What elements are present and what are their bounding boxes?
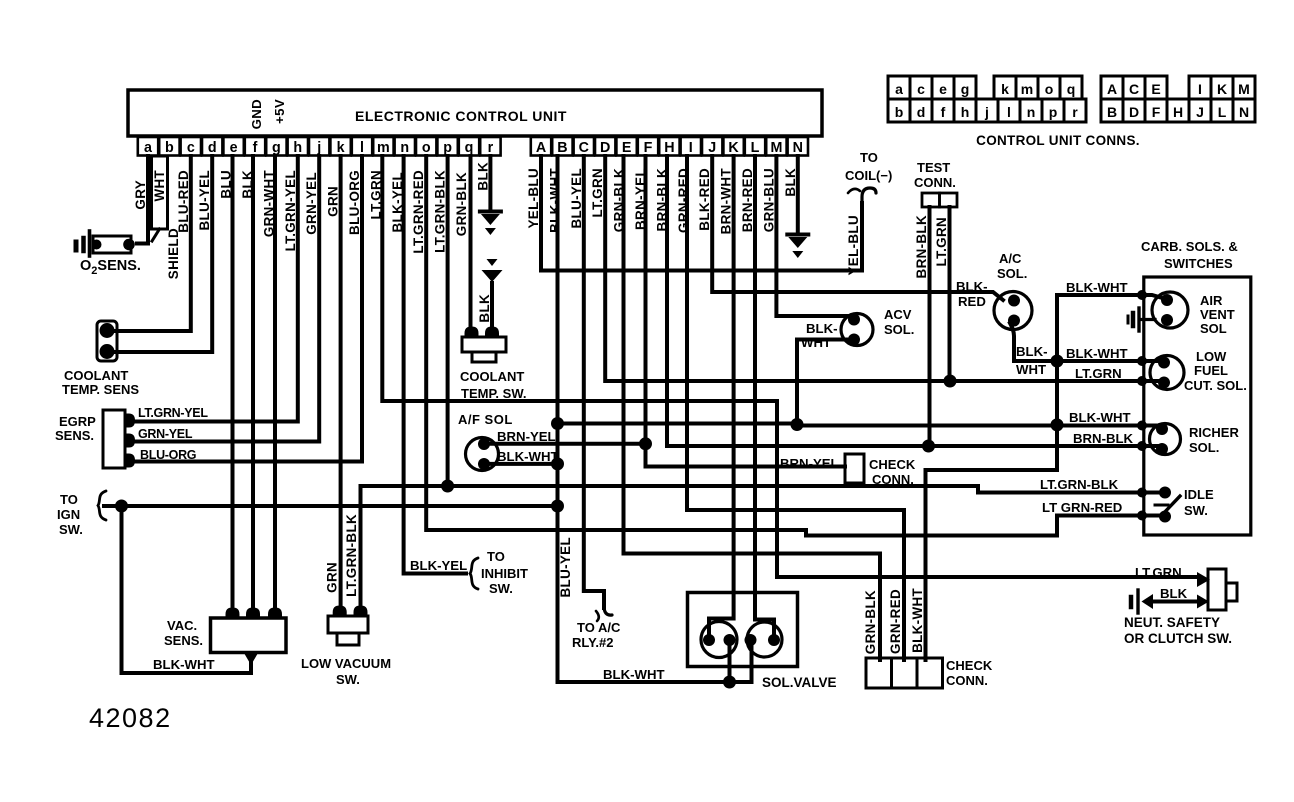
svg-text:BLK-: BLK-: [806, 321, 838, 336]
svg-text:LT.GRN-BLK: LT.GRN-BLK: [1040, 477, 1119, 492]
svg-text:J: J: [1196, 104, 1204, 120]
wire pin a GRY down to O2 sensor: [137, 156, 148, 244]
svg-text:WHT: WHT: [1016, 362, 1046, 377]
svg-text:SOL.: SOL.: [884, 322, 914, 337]
neut safety connector arrow: [1197, 572, 1210, 587]
svg-text:SW.: SW.: [336, 672, 360, 687]
svg-text:IDLE: IDLE: [1184, 487, 1214, 502]
svg-text:LT.GRN: LT.GRN: [1075, 366, 1122, 381]
low vacuum sw LT.GRN-BLK wire from idle line: [359, 486, 363, 614]
svg-text:CHECK: CHECK: [946, 658, 993, 673]
svg-text:BLU-ORG: BLU-ORG: [140, 448, 196, 462]
svg-text:M: M: [1238, 81, 1250, 97]
svg-text:AIR: AIR: [1200, 293, 1223, 308]
sol valve left coil: [701, 622, 737, 658]
svg-text:GRN-YEL: GRN-YEL: [304, 172, 319, 235]
neut safety ground: [1136, 590, 1139, 613]
EGRP sensor body: [103, 410, 125, 468]
svg-text:L: L: [1218, 104, 1227, 120]
svg-text:BLK-WHT: BLK-WHT: [497, 449, 559, 464]
svg-text:SHIELD: SHIELD: [166, 228, 181, 279]
svg-text:COOLANT: COOLANT: [460, 369, 524, 384]
svg-text:+5V: +5V: [272, 99, 287, 124]
wire pin I GRN-RED to check conn 2: [687, 156, 904, 660]
svg-text:GRN: GRN: [326, 186, 341, 217]
svg-text:BLK: BLK: [475, 162, 490, 191]
svg-text:BRN-BLK: BRN-BLK: [914, 215, 929, 278]
svg-text:FUEL: FUEL: [1194, 363, 1228, 378]
svg-text:TO: TO: [487, 549, 505, 564]
wire pin f BLK to vac sens: [251, 156, 255, 616]
solenoid LOW FUEL CUT: [1150, 356, 1184, 390]
svg-text:F: F: [1152, 104, 1161, 120]
O2 sensor body: [93, 236, 131, 253]
svg-text:g: g: [961, 81, 970, 97]
check conn 1 box: [845, 454, 864, 483]
coolant temp switch body: [465, 327, 479, 339]
svg-text:RICHER: RICHER: [1189, 425, 1239, 440]
svg-text:WHT: WHT: [152, 170, 167, 202]
A/F BRN-YEL wire to pin F: [483, 442, 646, 446]
test conn LT.GRN wire: [948, 207, 952, 381]
svg-text:BRN-RED: BRN-RED: [740, 168, 755, 232]
svg-text:BRN-YEL: BRN-YEL: [780, 456, 839, 471]
svg-text:EGRP: EGRP: [59, 414, 96, 429]
wire pin B BLK-WHT down to sol valve: [558, 156, 752, 682]
shield conductor (pin b): [152, 156, 168, 229]
vac sensor body: [226, 608, 240, 620]
solenoid ACV: [841, 314, 873, 346]
ECU upper-case pin boxes A-N: [531, 137, 551, 156]
svg-text:BRN-WHT: BRN-WHT: [719, 168, 734, 235]
wire pin e BLU to vac sens: [231, 156, 235, 616]
svg-text:SOL.VALVE: SOL.VALVE: [762, 675, 837, 690]
wire EGRP BLU-ORG to pin l: [127, 156, 362, 462]
svg-text:BLU-YEL: BLU-YEL: [558, 537, 573, 597]
control unit connector legend block 2: [1101, 76, 1123, 99]
svg-text:BLK-WHT: BLK-WHT: [547, 168, 562, 233]
solenoid A/C: [994, 292, 1032, 330]
svg-text:D: D: [600, 140, 610, 156]
svg-text:I: I: [1198, 81, 1202, 97]
svg-text:SENS.: SENS.: [164, 633, 203, 648]
svg-text:BLK-YEL: BLK-YEL: [410, 558, 467, 573]
svg-text:K: K: [728, 140, 739, 156]
wire pin q down to coolant temp switch: [469, 156, 473, 334]
svg-text:TEST: TEST: [917, 160, 950, 175]
svg-text:BLK-WHT: BLK-WHT: [1066, 346, 1128, 361]
svg-text:TO A/C: TO A/C: [577, 620, 621, 635]
svg-text:COOLANT: COOLANT: [64, 368, 128, 383]
svg-text:CONTROL UNIT CONNS.: CONTROL UNIT CONNS.: [976, 133, 1140, 148]
wire pin o LT.GRN-RED to idle sw: [426, 156, 1161, 536]
svg-text:LOW: LOW: [1196, 349, 1227, 364]
wire pin A YEL-BLU to coil: [541, 156, 862, 271]
svg-text:f: f: [941, 104, 946, 120]
svg-text:BLK-: BLK-: [1016, 344, 1048, 359]
svg-text:A/F SOL: A/F SOL: [458, 412, 513, 427]
svg-text:d: d: [208, 140, 217, 156]
svg-text:A: A: [536, 140, 546, 156]
wire pin C BLU-YEL to A/C relay: [584, 156, 604, 608]
svg-text:SW.: SW.: [59, 522, 83, 537]
svg-text:I: I: [689, 140, 693, 156]
svg-text:n: n: [400, 140, 409, 156]
svg-text:BLU-YEL: BLU-YEL: [569, 168, 584, 228]
svg-text:VENT: VENT: [1200, 307, 1235, 322]
svg-text:c: c: [187, 140, 195, 156]
svg-text:LT.GRN: LT.GRN: [934, 217, 949, 266]
svg-text:F: F: [644, 140, 653, 156]
wire pin F BRN-YEL to check conn 1: [646, 156, 846, 467]
wire pin d to coolant temp sens: [112, 156, 212, 352]
low vacuum sw body: [333, 606, 347, 618]
svg-text:SWITCHES: SWITCHES: [1164, 256, 1233, 271]
svg-text:k: k: [337, 140, 345, 156]
inhibit bracket: [470, 558, 478, 589]
coolant temp sensor body: [97, 321, 117, 361]
svg-text:SOL: SOL: [1200, 321, 1227, 336]
svg-text:N: N: [793, 140, 803, 156]
svg-text:h: h: [293, 140, 302, 156]
neut safety BLK wire: [1197, 595, 1209, 609]
wire pin M GRN-BLU to acv sol: [776, 156, 850, 316]
IDLE SW: [1159, 487, 1171, 499]
coil hook: [862, 188, 876, 204]
svg-text:LT.GRN: LT.GRN: [590, 168, 605, 217]
svg-text:WHT: WHT: [801, 335, 831, 350]
neut safety body: [1208, 569, 1226, 610]
coolant temp switch BLK wire to ground: [490, 283, 494, 334]
svg-text:m: m: [377, 140, 390, 156]
svg-text:a: a: [895, 81, 903, 97]
svg-text:GRN-BLK: GRN-BLK: [454, 172, 469, 236]
svg-text:E: E: [1151, 81, 1160, 97]
test conn boxes: [922, 193, 940, 207]
svg-text:YEL-BLU: YEL-BLU: [846, 215, 861, 275]
svg-text:BLK: BLK: [477, 294, 492, 323]
svg-text:CONN.: CONN.: [914, 175, 956, 190]
svg-text:LT GRN-RED: LT GRN-RED: [1042, 500, 1122, 515]
svg-text:c: c: [917, 81, 925, 97]
ECU lower-case pin boxes a-r: [138, 137, 158, 156]
svg-text:RED: RED: [958, 294, 986, 309]
wire pin N BLK to ground: [796, 156, 800, 232]
svg-text:LT.GRN-BLK: LT.GRN-BLK: [344, 514, 359, 597]
svg-text:f: f: [253, 140, 258, 156]
solenoid A/F: [466, 438, 499, 471]
wire pin c to coolant temp sens: [112, 156, 191, 331]
svg-text:BLK: BLK: [1160, 586, 1188, 601]
svg-text:BLK-WHT: BLK-WHT: [1066, 280, 1128, 295]
svg-text:VAC.: VAC.: [167, 618, 197, 633]
svg-text:g: g: [272, 140, 281, 156]
svg-text:J: J: [708, 140, 716, 156]
control unit connector legend block 1: [888, 76, 910, 99]
A/C sol BLK-WHT wire to low fuel: [1010, 323, 1160, 361]
svg-text:L: L: [751, 140, 760, 156]
svg-text:LT.GRN-RED: LT.GRN-RED: [411, 170, 426, 254]
IGN SW brace: [98, 491, 106, 520]
svg-text:p: p: [1049, 104, 1058, 120]
svg-text:E: E: [622, 140, 632, 156]
wire pin D LT.GRN to low fuel cut sol: [605, 156, 1161, 381]
wire pin k GRN to low vacuum sw: [339, 156, 343, 614]
svg-text:SOL.: SOL.: [1189, 440, 1219, 455]
test conn BRN-BLK wire: [928, 207, 932, 446]
svg-text:n: n: [1027, 104, 1036, 120]
wire pin n BLK-YEL to inhibit sw: [404, 156, 466, 574]
svg-text:e: e: [230, 140, 238, 156]
ACV BLK-WHT wire down to richer line: [797, 340, 854, 424]
svg-text:j: j: [316, 140, 321, 156]
svg-text:GRN-RED: GRN-RED: [888, 589, 903, 654]
svg-text:SOL.: SOL.: [997, 266, 1027, 281]
svg-text:BLU-ORG: BLU-ORG: [347, 170, 362, 235]
svg-text:j: j: [984, 104, 989, 120]
svg-text:l: l: [360, 140, 364, 156]
vac sens BLK-WHT wire to ign junction: [122, 506, 252, 673]
svg-text:BRN-BLK: BRN-BLK: [1073, 431, 1134, 446]
svg-text:COIL(−): COIL(−): [845, 168, 892, 183]
svg-text:LT.GRN-YEL: LT.GRN-YEL: [138, 406, 208, 420]
svg-text:a: a: [144, 140, 153, 156]
svg-text:r: r: [488, 140, 494, 156]
svg-text:GND: GND: [249, 99, 264, 129]
wire pin r BLK to ground: [488, 156, 492, 209]
svg-text:YEL-BLU: YEL-BLU: [526, 168, 541, 228]
svg-text:TEMP. SENS: TEMP. SENS: [62, 382, 139, 397]
wire pin H BRN-BLK to richer sol: [667, 156, 1159, 446]
svg-text:IGN: IGN: [57, 507, 80, 522]
svg-text:GRN-BLU: GRN-BLU: [761, 168, 776, 232]
svg-text:m: m: [1021, 81, 1033, 97]
BLK-WHT richer wire from pin B junction: [558, 424, 1160, 426]
svg-text:N: N: [1239, 104, 1249, 120]
wire pin K BRN-WHT to sol valve: [709, 156, 734, 636]
svg-text:C: C: [1129, 81, 1139, 97]
svg-text:INHIBIT: INHIBIT: [481, 566, 528, 581]
wire pin p LT.GRN-BLK join idle line: [446, 156, 450, 486]
svg-text:k: k: [1001, 81, 1009, 97]
sol valve box: [688, 593, 798, 667]
O2 sensor reference ticks: [88, 231, 92, 256]
svg-text:TO: TO: [860, 150, 878, 165]
svg-text:GRN: GRN: [325, 562, 340, 593]
svg-text:GRN-YEL: GRN-YEL: [138, 427, 193, 441]
svg-text:BLK-WHT: BLK-WHT: [910, 588, 925, 653]
svg-text:A: A: [1107, 81, 1117, 97]
svg-text:TO: TO: [60, 492, 78, 507]
svg-text:SENS.: SENS.: [55, 428, 94, 443]
svg-text:BLU-YEL: BLU-YEL: [197, 170, 212, 230]
svg-text:r: r: [1072, 104, 1078, 120]
svg-text:NEUT. SAFETY: NEUT. SAFETY: [1124, 615, 1220, 630]
svg-text:BLK-WHT: BLK-WHT: [153, 657, 215, 672]
svg-text:CUT. SOL.: CUT. SOL.: [1184, 378, 1247, 393]
svg-text:BLK-: BLK-: [956, 279, 988, 294]
TO IGN SW wire to pin B: [104, 504, 558, 508]
svg-text:CONN.: CONN.: [872, 472, 914, 487]
svg-text:CARB. SOLS. &: CARB. SOLS. &: [1141, 239, 1238, 254]
svg-text:TEMP. SW.: TEMP. SW.: [461, 386, 527, 401]
svg-text:A/C: A/C: [999, 251, 1022, 266]
svg-text:GRN-BLK: GRN-BLK: [863, 590, 878, 654]
svg-text:b: b: [895, 104, 904, 120]
svg-text:h: h: [961, 104, 970, 120]
svg-text:q: q: [1067, 81, 1076, 97]
svg-text:q: q: [465, 140, 474, 156]
svg-text:BLU-RED: BLU-RED: [176, 170, 191, 233]
svg-text:42082: 42082: [89, 703, 172, 733]
sol valve right coil: [747, 622, 782, 657]
wire pin E GRN-BLK to check conn 2: [624, 156, 881, 660]
wire pin g GRN-WHT to vac sens: [273, 156, 277, 616]
svg-text:GRY: GRY: [133, 180, 148, 210]
svg-text:LT.GRN-BLK: LT.GRN-BLK: [433, 170, 448, 253]
svg-text:LT.GRN: LT.GRN: [1135, 565, 1182, 580]
svg-text:LT.GRN-YEL: LT.GRN-YEL: [283, 170, 298, 251]
solenoid AIR VENT: [1152, 292, 1188, 328]
solenoid RICHER: [1150, 424, 1181, 455]
svg-text:d: d: [917, 104, 926, 120]
svg-text:BLK-RED: BLK-RED: [697, 168, 712, 231]
svg-text:B: B: [1107, 104, 1117, 120]
svg-text:OR CLUTCH SW.: OR CLUTCH SW.: [1124, 631, 1232, 646]
A/F BLK-WHT wire to pin B: [483, 462, 558, 466]
svg-text:SW.: SW.: [1184, 503, 1208, 518]
wire pin L BRN-RED to sol valve: [755, 156, 774, 634]
svg-text:BRN-YEL: BRN-YEL: [497, 429, 556, 444]
svg-text:p: p: [443, 140, 452, 156]
svg-text:SW.: SW.: [489, 581, 513, 596]
svg-text:BLK-WHT: BLK-WHT: [1069, 410, 1131, 425]
svg-text:CONN.: CONN.: [946, 673, 988, 688]
svg-text:ACV: ACV: [884, 307, 912, 322]
LT.GRN-BLK line low vac to idle sw: [361, 486, 1162, 493]
svg-text:o: o: [422, 140, 431, 156]
svg-text:e: e: [939, 81, 947, 97]
carb sols box: [1144, 277, 1251, 535]
BLK-WHT riser to check conn 2: [924, 470, 928, 660]
svg-text:LOW VACUUM: LOW VACUUM: [301, 656, 391, 671]
svg-text:M: M: [770, 140, 782, 156]
wire EGRP GRN-YEL to pin j: [127, 156, 319, 442]
svg-text:B: B: [557, 140, 567, 156]
A/C relay hook: [604, 606, 612, 615]
svg-text:BLK-WHT: BLK-WHT: [603, 667, 665, 682]
stub left solenoid to blk-wht: [728, 646, 732, 682]
svg-text:BLK: BLK: [783, 168, 798, 197]
wire EGRP LT.GRN-YEL to pin h: [127, 156, 298, 422]
svg-text:CHECK: CHECK: [869, 457, 916, 472]
wire pin J BLK-RED to a/c sol: [712, 156, 1003, 300]
svg-text:l: l: [1007, 104, 1011, 120]
svg-text:K: K: [1217, 81, 1227, 97]
svg-text:b: b: [165, 140, 174, 156]
svg-text:ELECTRONIC CONTROL UNIT: ELECTRONIC CONTROL UNIT: [355, 108, 567, 124]
wire pin m LT.GRN to neut safety sw: [382, 156, 1198, 577]
BLK-WHT air vent wire: [1057, 295, 1166, 299]
svg-text:D: D: [1129, 104, 1139, 120]
check conn 2 boxes: [866, 658, 892, 688]
svg-text:H: H: [664, 140, 674, 156]
svg-text:C: C: [579, 140, 589, 156]
svg-text:RLY.#2: RLY.#2: [572, 635, 613, 650]
svg-text:H: H: [1173, 104, 1183, 120]
air vent ground: [1137, 308, 1140, 331]
svg-text:o: o: [1045, 81, 1054, 97]
BLK-WHT bus vertical: [927, 295, 1057, 470]
Electronic Control Unit box: [128, 90, 822, 136]
